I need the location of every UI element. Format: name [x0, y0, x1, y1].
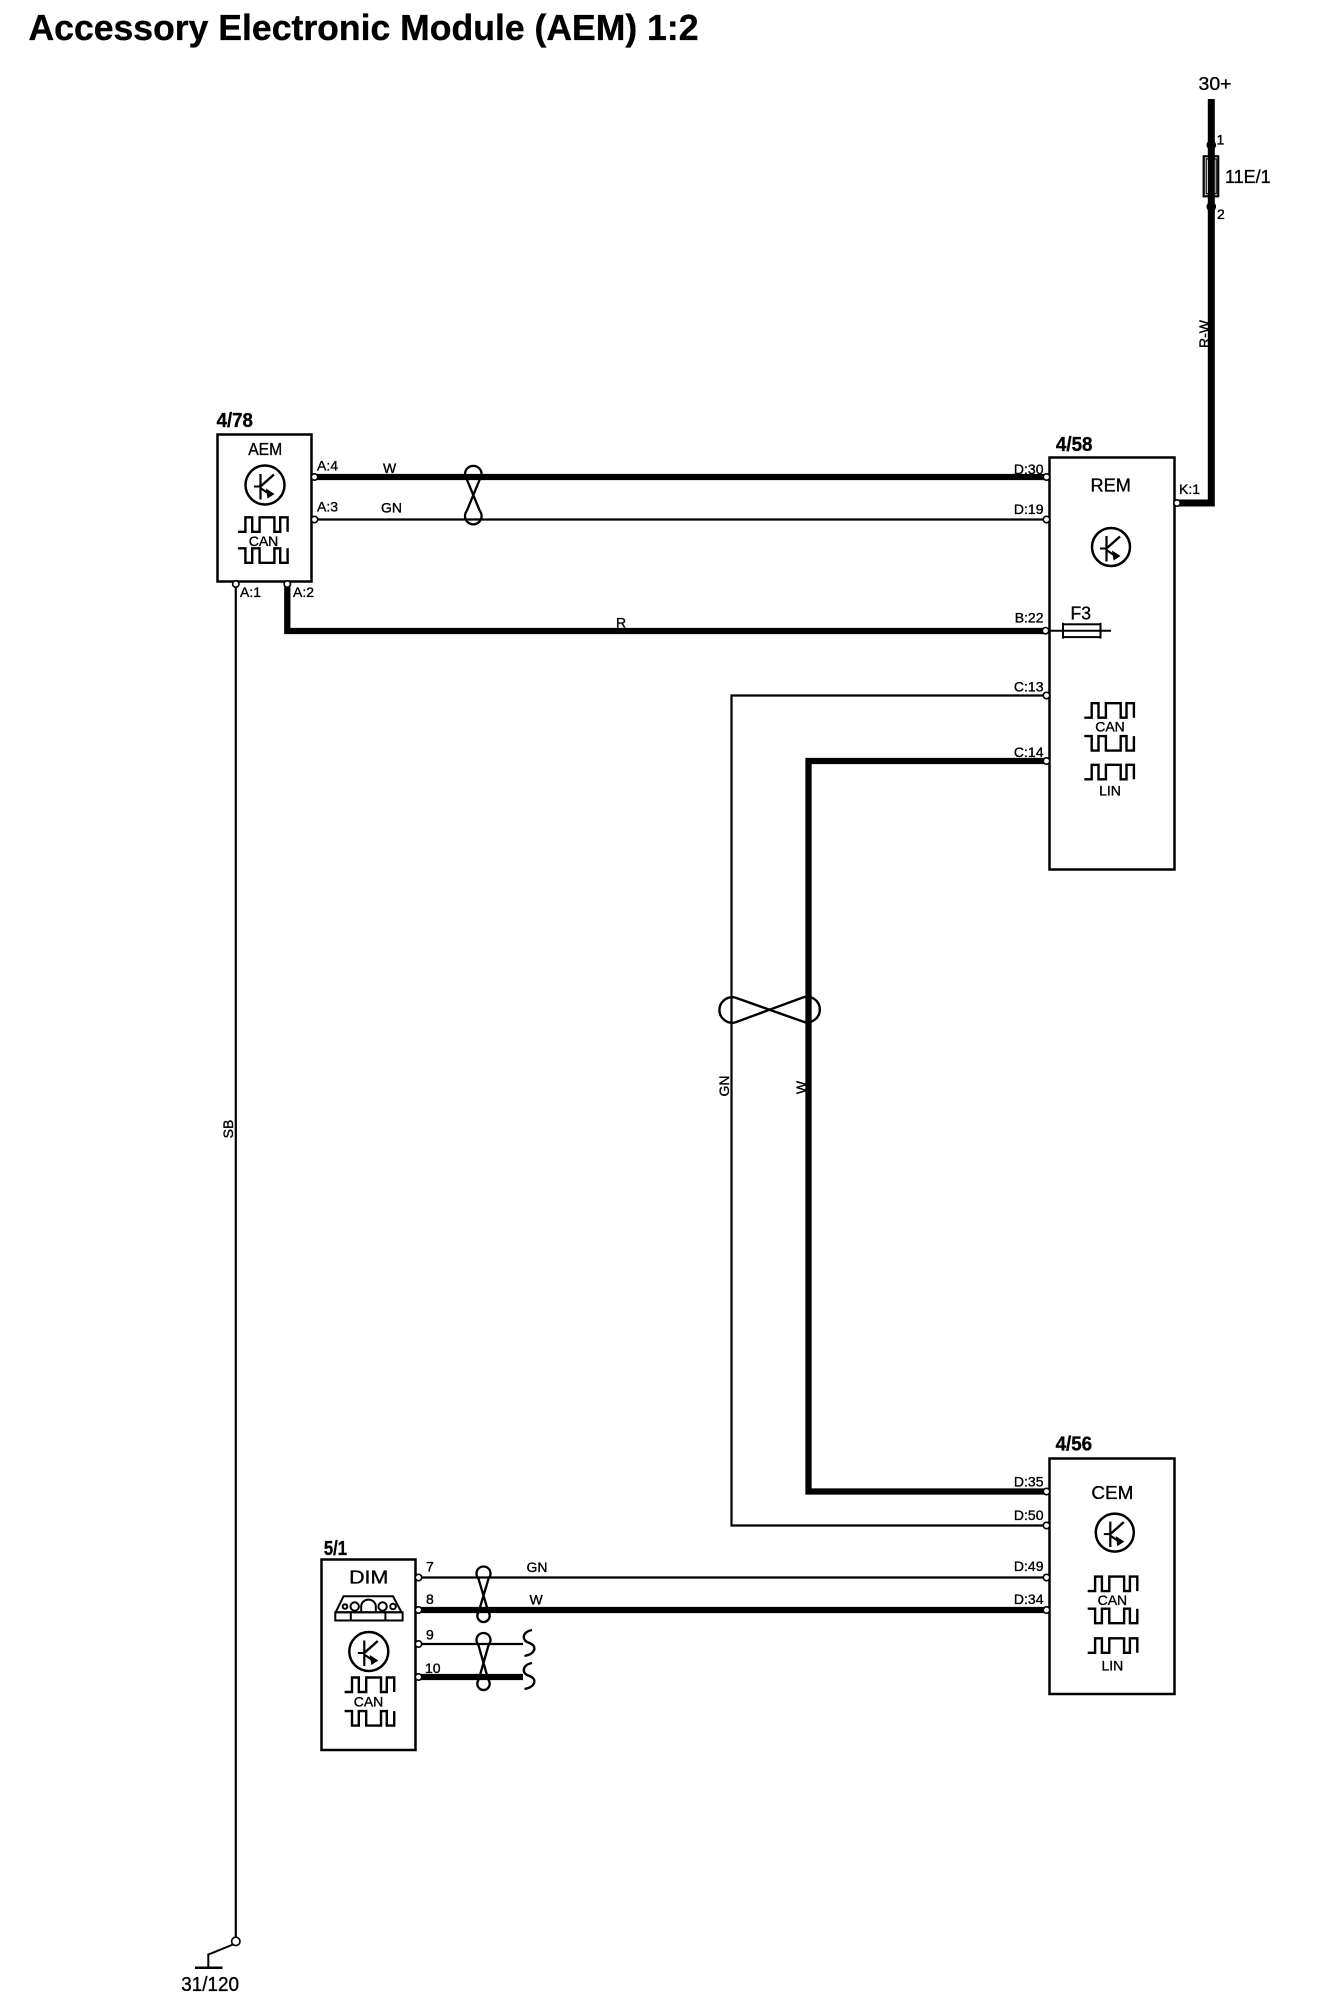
svg-text:DIM: DIM	[349, 1567, 388, 1588]
svg-text:4/58: 4/58	[1056, 434, 1093, 456]
pin 2 of fuse 11E/1	[1207, 202, 1217, 212]
twisted pair symbol GN/W vertical pair	[719, 997, 819, 1023]
pin C:14	[1043, 758, 1049, 764]
svg-text:C:13: C:13	[1014, 679, 1044, 695]
pin 10	[415, 1674, 421, 1680]
svg-text:C:14: C:14	[1014, 744, 1044, 760]
pin 1 of fuse 11E/1	[1207, 140, 1217, 150]
pin D:35	[1043, 1488, 1049, 1494]
svg-text:CAN: CAN	[354, 1694, 384, 1710]
svg-text:31/120: 31/120	[181, 1974, 239, 1996]
pin A:1	[233, 581, 239, 587]
svg-text:11E/1: 11E/1	[1225, 167, 1271, 187]
svg-text:4/56: 4/56	[1056, 1434, 1093, 1456]
wire battery feed vertical R-W + K:1 horizontal	[1174, 99, 1211, 503]
clock icon DIM	[349, 1632, 388, 1671]
pin 7	[415, 1574, 421, 1580]
svg-text:D:50: D:50	[1014, 1507, 1044, 1523]
pin D:19	[1043, 516, 1049, 522]
pin 9	[415, 1641, 421, 1647]
twisted pair symbol 9/10	[477, 1633, 491, 1690]
svg-text:7: 7	[426, 1559, 434, 1575]
svg-text:8: 8	[426, 1591, 434, 1607]
svg-text:R-W: R-W	[1196, 319, 1212, 348]
wire C:14 to D:35 (W)	[809, 761, 1047, 1492]
twisted pair symbol A:4/A:3	[465, 466, 482, 525]
break symbol wire 10	[524, 1663, 535, 1689]
svg-text:A:1: A:1	[240, 584, 261, 600]
twisted pair symbol 7/8	[477, 1567, 491, 1622]
svg-text:D:19: D:19	[1014, 501, 1044, 517]
wire DIM 10 (unterminated)	[416, 1674, 523, 1680]
svg-text:CAN: CAN	[1095, 719, 1125, 735]
svg-text:W: W	[793, 1080, 809, 1094]
CAN symbol REM	[1084, 703, 1134, 750]
svg-text:LIN: LIN	[1099, 782, 1121, 798]
clock icon CEM	[1096, 1514, 1134, 1552]
svg-text:REM: REM	[1091, 475, 1131, 496]
svg-text:D:34: D:34	[1014, 1591, 1044, 1607]
pin D:30	[1043, 474, 1049, 480]
svg-text:CEM: CEM	[1091, 1482, 1133, 1503]
svg-text:D:35: D:35	[1014, 1474, 1044, 1490]
svg-text:AEM: AEM	[248, 439, 282, 459]
svg-text:10: 10	[425, 1660, 441, 1676]
svg-text:W: W	[530, 1592, 544, 1608]
wire A:2 to B:22 (R)	[287, 582, 1046, 632]
pin 8	[415, 1607, 421, 1613]
pin C:13	[1043, 692, 1049, 698]
LIN symbol REM	[1084, 765, 1134, 780]
svg-text:30+: 30+	[1199, 74, 1232, 94]
clock icon AEM	[246, 466, 285, 505]
LIN symbol CEM	[1088, 1638, 1138, 1653]
svg-text:GN: GN	[716, 1076, 732, 1097]
instrument cluster icon DIM	[335, 1596, 402, 1620]
CAN symbol AEM	[238, 517, 288, 563]
svg-text:GN: GN	[381, 500, 402, 516]
pin K:1	[1174, 500, 1180, 506]
svg-text:Accessory Electronic Module (A: Accessory Electronic Module (AEM) 1:2	[29, 7, 699, 48]
svg-text:B:22: B:22	[1015, 610, 1044, 626]
svg-text:CAN: CAN	[1098, 1592, 1128, 1608]
pin A:4	[311, 474, 317, 480]
wire DIM 7 to D:49 (GN)	[416, 1576, 1046, 1578]
svg-text:A:3: A:3	[317, 499, 338, 515]
fuse 11E/1	[1204, 156, 1219, 196]
svg-text:LIN: LIN	[1102, 1657, 1124, 1673]
svg-text:D:30: D:30	[1014, 461, 1044, 477]
pin A:2	[284, 581, 290, 587]
svg-text:GN: GN	[527, 1559, 548, 1575]
wire A:1 to ground (SB)	[235, 582, 237, 1942]
svg-text:W: W	[383, 460, 397, 476]
svg-text:CAN: CAN	[249, 533, 279, 549]
pin D:49	[1043, 1574, 1049, 1580]
svg-text:F3: F3	[1071, 604, 1092, 624]
pin D:34	[1043, 1607, 1049, 1613]
svg-text:K:1: K:1	[1179, 481, 1200, 497]
wire A:4 to D:30 (W)	[312, 474, 1049, 480]
svg-text:1: 1	[1217, 131, 1225, 147]
svg-text:2: 2	[1217, 206, 1225, 222]
clock icon REM	[1092, 528, 1130, 566]
pin A:3	[311, 516, 317, 522]
wire A:3 to D:19 (GN)	[312, 518, 1049, 520]
wire C:13 to D:50 (GN)	[732, 696, 1047, 1526]
CAN symbol DIM	[345, 1678, 395, 1726]
pin B:22	[1042, 628, 1048, 634]
svg-text:R: R	[616, 614, 626, 630]
svg-text:A:4: A:4	[317, 458, 338, 474]
pin D:50	[1043, 1522, 1049, 1528]
svg-text:4/78: 4/78	[217, 410, 253, 432]
svg-text:SB: SB	[220, 1120, 236, 1139]
break symbol wire 9	[524, 1630, 535, 1656]
svg-text:9: 9	[426, 1627, 434, 1643]
svg-text:5/1: 5/1	[324, 1538, 347, 1560]
svg-text:A:2: A:2	[293, 584, 314, 600]
svg-text:D:49: D:49	[1014, 1558, 1044, 1574]
wire DIM 9 (unterminated)	[416, 1643, 523, 1645]
wire DIM 8 to D:34 (W)	[416, 1607, 1046, 1613]
CAN symbol CEM	[1088, 1577, 1138, 1624]
ground 31/120	[232, 1937, 240, 1945]
